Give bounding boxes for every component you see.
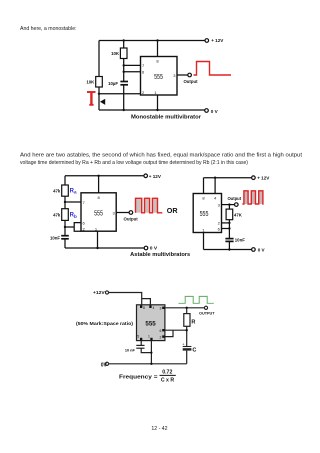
svg-text:Astable multivibrators: Astable multivibrators: [130, 252, 190, 258]
terminal 0V: [252, 248, 256, 252]
wire ground rail: [204, 249, 252, 251]
svg-text:And here are two astables, the: And here are two astables, the second of…: [20, 153, 303, 159]
junction C bottom on 0V rail: [228, 248, 230, 250]
svg-text:Output: Output: [124, 217, 139, 222]
terminal 0V: [144, 246, 148, 250]
output waveform 50% (red): [244, 191, 263, 204]
svg-text:Ra: Ra: [70, 188, 77, 194]
junction trigger node pin 2: [98, 93, 100, 95]
wire +12V feed: [109, 293, 142, 305]
capacitor C electrolytic: [183, 346, 192, 348]
green output waveform: [179, 296, 214, 303]
wire pin8 drop: [98, 176, 100, 193]
svg-text:10 nF: 10 nF: [125, 349, 136, 353]
svg-text:10K: 10K: [111, 51, 120, 56]
terminal +12V: [144, 174, 148, 178]
svg-text:C: C: [192, 347, 196, 353]
timer IC U4 555 (grey body): [137, 305, 165, 341]
svg-text:+12V: +12V: [93, 290, 105, 296]
junction output node at resistor top: [228, 203, 230, 205]
svg-text:4: 4: [153, 306, 155, 310]
wire ground rail: [65, 247, 144, 249]
resistor R 10K top: [120, 48, 127, 59]
wire pin8 drop: [157, 41, 159, 57]
wire pin1 drop: [97, 231, 99, 248]
svg-text:47k: 47k: [53, 189, 61, 194]
wire pin7: [124, 64, 141, 66]
svg-text:555: 555: [94, 210, 103, 218]
pin stubs U4: [140, 305, 165, 340]
wire junction to bracket: [65, 226, 74, 228]
wire top rail: [65, 175, 144, 177]
svg-text:R: R: [191, 319, 195, 325]
svg-text:10K: 10K: [86, 80, 95, 85]
timer IC U1 555: [141, 57, 178, 96]
pin numbers U1 (8,7,6,2,1,3): [142, 59, 176, 96]
junction pin 6 node: [123, 71, 125, 73]
capacitor 10nF: [61, 236, 69, 239]
wire pin3 output: [165, 307, 204, 309]
terminal +12V: [252, 176, 256, 180]
svg-text:555: 555: [145, 321, 156, 328]
wire pin1 drop: [203, 233, 205, 250]
wire resistor branch vertical: [228, 205, 230, 239]
junction pin 4 on +12V rail: [214, 177, 216, 179]
svg-text:voltage time determined by Ra: voltage time determined by Ra + Rb and a…: [20, 160, 248, 166]
junction Rb/C node pins 6-2: [64, 226, 66, 228]
junction at R1 top on +12V rail: [123, 39, 125, 41]
svg-text:0 V: 0 V: [211, 109, 219, 114]
svg-text:8: 8: [143, 306, 145, 310]
wire ground rail: [109, 363, 187, 365]
wire pin1 drop: [150, 341, 152, 364]
svg-text:And here, a monostable:: And here, a monostable:: [20, 26, 77, 32]
svg-text:0V: 0V: [101, 363, 108, 369]
terminal output: [129, 211, 133, 215]
wire pin3 output: [222, 204, 235, 206]
terminal output: [235, 203, 239, 207]
wire pin1 drop: [157, 95, 159, 110]
svg-text:OR: OR: [167, 206, 179, 215]
resistor Ra 47k: [62, 185, 69, 196]
wire 8-4 link loop: [142, 299, 151, 305]
wire pin4 up: [214, 178, 216, 194]
junction C1 on 0V rail: [123, 109, 125, 111]
junction pin 1 on 0V rail: [156, 109, 158, 111]
svg-text:12 - 42: 12 - 42: [151, 426, 167, 432]
capacitor 10nF on pin5: [136, 345, 144, 348]
junction output node at R top: [186, 307, 188, 309]
svg-text:10µF: 10µF: [108, 81, 118, 86]
svg-text:Rb: Rb: [70, 213, 77, 219]
svg-text:+ 12V: + 12V: [211, 38, 224, 43]
pin numbers U2 (8,7,6,2,1,3): [83, 195, 116, 232]
svg-text:+ 12V: + 12V: [257, 176, 270, 181]
svg-text:0 V: 0 V: [258, 248, 266, 253]
terminal OUTPUT: [204, 306, 207, 309]
svg-text:0 V: 0 V: [150, 245, 158, 251]
junction R bottom / C top node: [186, 329, 188, 331]
wire top rail: [99, 40, 205, 42]
svg-text:6: 6: [160, 329, 162, 333]
terminal 0V: [205, 109, 209, 113]
wire pin2: [222, 222, 230, 224]
wire left vertical: [98, 41, 100, 111]
resistor R 10K left: [96, 77, 103, 88]
output waveform 2:1 (red): [136, 198, 158, 213]
wire middle vertical: [123, 41, 125, 82]
junction Ra/Rb node pin 7: [64, 201, 66, 203]
push button switch: [100, 99, 105, 105]
svg-text:+ 12V: + 12V: [149, 174, 162, 179]
svg-text:Output: Output: [183, 79, 198, 84]
svg-text:Frequency =: Frequency =: [119, 374, 158, 380]
svg-text:0.72: 0.72: [162, 370, 172, 376]
terminal +12V: [205, 39, 209, 43]
svg-text:(50% Mark:Space ratio): (50% Mark:Space ratio): [76, 321, 134, 326]
svg-text:555: 555: [200, 210, 209, 218]
pin numbers U4 (8,4,3,6,2,5,1): [137, 306, 161, 339]
wire pin3 output: [177, 74, 188, 76]
wire pin2: [99, 93, 141, 95]
output waveform (red): [194, 62, 232, 76]
resistor R: [184, 314, 190, 327]
wire bracket pins 6-2: [74, 223, 81, 232]
wire pin3 output: [116, 212, 129, 214]
junction pin 5 cap to pin 1 wire: [150, 352, 152, 354]
svg-text:2: 2: [160, 335, 162, 339]
junction pin 8 branch on +12V rail: [97, 175, 99, 177]
wire C to ground: [186, 351, 188, 364]
svg-text:47k: 47k: [53, 212, 61, 217]
svg-text:C x R: C x R: [161, 377, 175, 383]
wire ground rail: [99, 109, 205, 111]
svg-text:OUTPUT: OUTPUT: [199, 310, 215, 315]
timer IC U2 555: [81, 193, 116, 231]
wire pin6: [222, 228, 230, 230]
svg-text:1: 1: [148, 334, 150, 338]
svg-text:Output: Output: [227, 196, 241, 201]
svg-text:5: 5: [137, 334, 139, 338]
wire pin6 row: [165, 329, 187, 331]
wire top rail: [204, 177, 252, 179]
wire R branch: [186, 308, 188, 346]
junction pin 7 node: [123, 64, 125, 66]
svg-text:3: 3: [160, 307, 162, 311]
junction pin 1 on 0V rail: [96, 247, 98, 249]
wire left vertical: [64, 176, 66, 236]
trigger pulse (red): [87, 92, 96, 105]
capacitor 10nF: [225, 239, 233, 242]
resistor 4.7K: [226, 209, 233, 220]
timer IC U3 555: [193, 194, 221, 233]
wire pin5 branch: [141, 341, 151, 353]
svg-text:555: 555: [154, 73, 163, 81]
svg-text:10nF: 10nF: [235, 237, 245, 242]
terminal 0V: [105, 362, 108, 365]
pin numbers U3 (8,4,3,2,6,1): [202, 196, 220, 233]
terminal output: [188, 73, 192, 77]
svg-text:10nF: 10nF: [50, 235, 60, 240]
wire bracket 6-2: [165, 330, 173, 336]
svg-text:Monostable multivibrator: Monostable multivibrator: [131, 114, 202, 120]
junction pin 2 node: [228, 222, 230, 224]
wire pin8 up: [203, 178, 205, 194]
svg-text:47K: 47K: [234, 212, 243, 217]
wire pin7: [65, 201, 81, 203]
junction pin 1 on 0V rail: [150, 363, 152, 365]
resistor Rb 47k: [62, 209, 69, 221]
wire pin6: [124, 71, 141, 73]
junction pin 6 node: [228, 227, 230, 229]
capacitor 10uF: [120, 82, 128, 85]
junction at pin 8 branch on +12V rail: [156, 39, 158, 41]
terminal +12V: [105, 291, 108, 294]
